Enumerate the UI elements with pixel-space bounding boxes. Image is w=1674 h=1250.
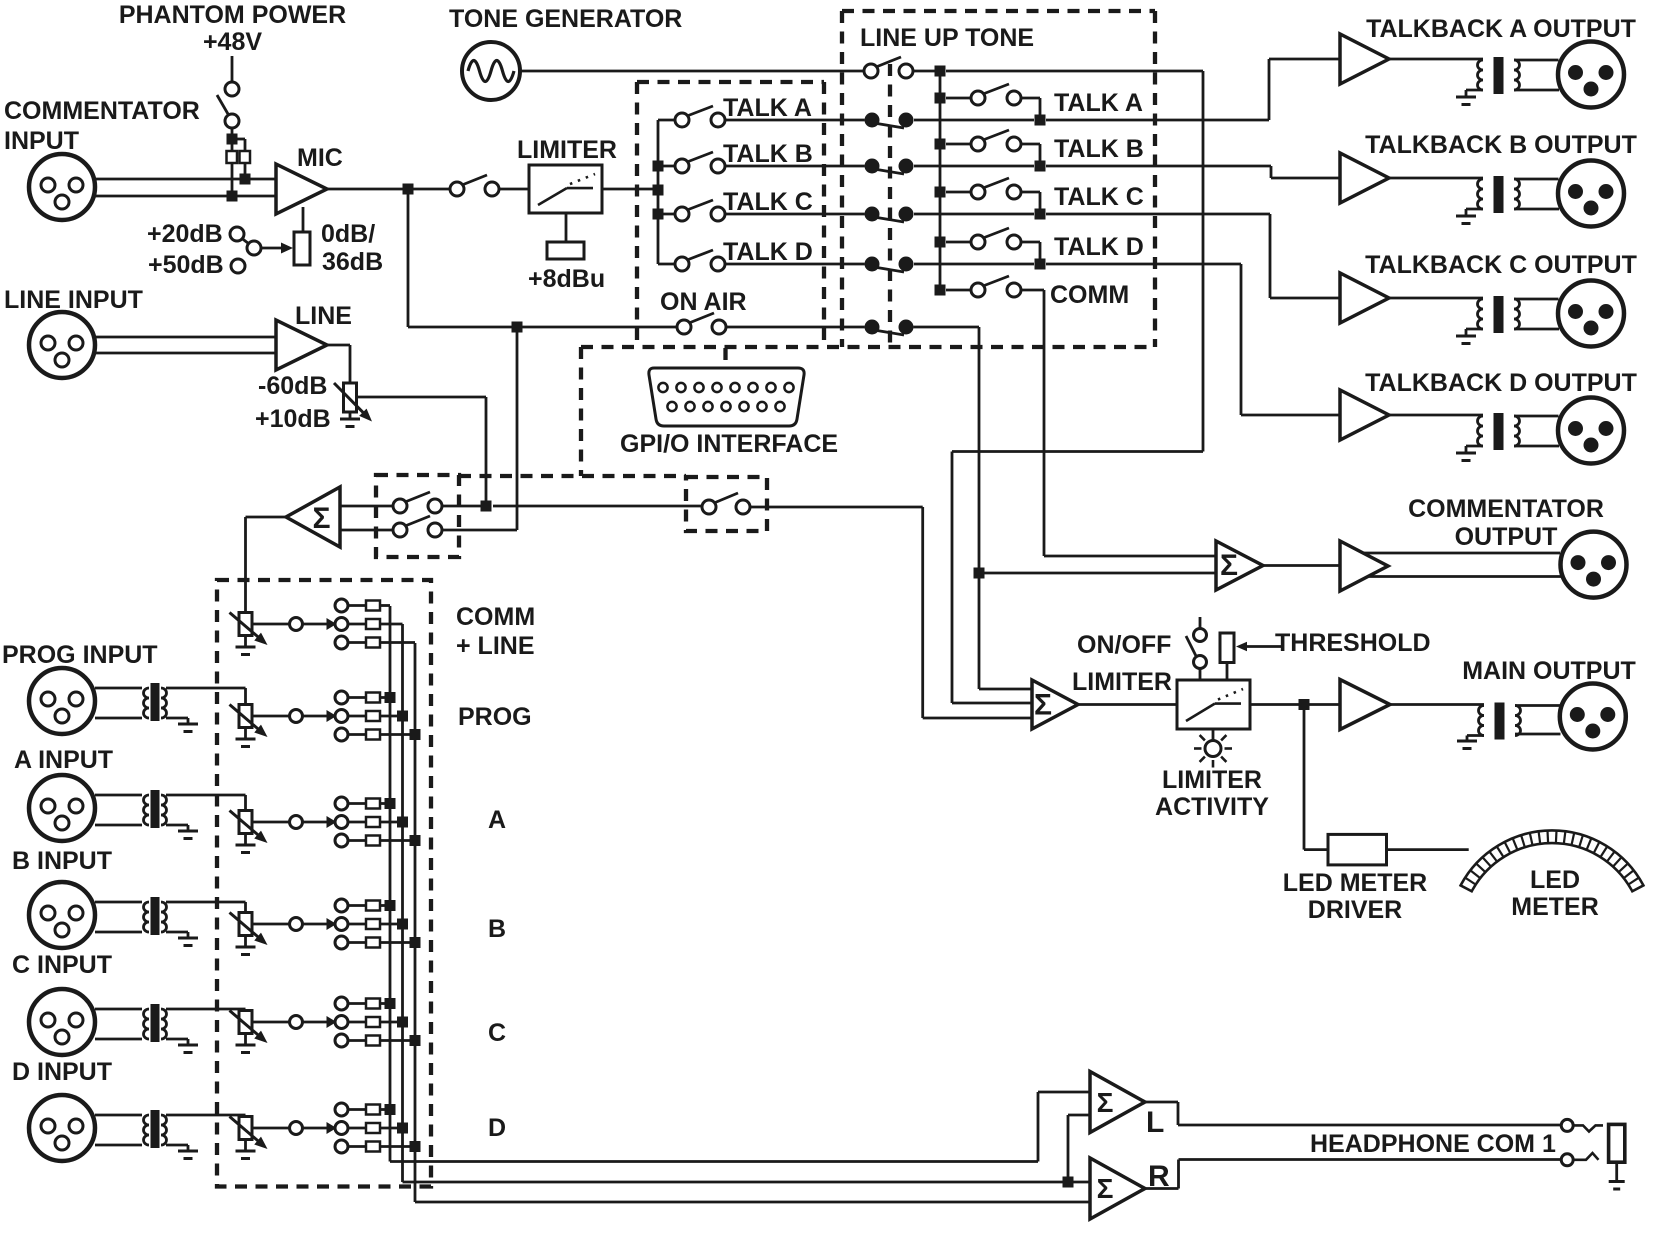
node tone bus B: [935, 139, 946, 150]
svg-text:INPUT: INPUT: [4, 127, 79, 155]
switch tone to TALK D: [971, 235, 985, 249]
svg-text:TALKBACK B OUTPUT: TALKBACK B OUTPUT: [1365, 131, 1637, 159]
op-amp sum headphone L: [1090, 1072, 1145, 1133]
switch sum upper: [393, 499, 407, 513]
svg-text:PROG: PROG: [458, 703, 532, 731]
connector XLR talkback B output: [1558, 161, 1624, 227]
switch tone inject master: [864, 64, 878, 78]
potentiometer matrix B: [239, 913, 252, 936]
dashed box gpio switch: [686, 477, 767, 531]
svg-text:TALK A: TALK A: [723, 94, 812, 122]
wire bus comm+line: [389, 606, 392, 1162]
contact C 3: [335, 1034, 348, 1047]
node PROG 1: [385, 692, 396, 703]
wire D secondary low to ground: [166, 1144, 188, 1147]
wire pot to buffer COMM + LINE: [252, 623, 290, 626]
svg-text:TALK B: TALK B: [1054, 135, 1144, 163]
svg-text:OUTPUT: OUTPUT: [1455, 523, 1558, 551]
wire R2 to mic high line: [244, 163, 247, 179]
buffer A: [290, 816, 303, 829]
wire D secondary high: [166, 1114, 246, 1117]
switch changeover talk B: [865, 159, 880, 174]
node A 3: [410, 835, 421, 846]
wire line pair high: [95, 336, 276, 339]
contact COMM + LINE 1: [335, 599, 348, 612]
op-amp sum headphone R: [1090, 1158, 1145, 1219]
node on-air to commentator sum: [974, 568, 985, 579]
potentiometer threshold: [1220, 633, 1234, 663]
switch TALK B: [675, 159, 689, 173]
svg-text:TALKBACK D OUTPUT: TALKBACK D OUTPUT: [1365, 369, 1637, 397]
switch changeover talk A: [865, 113, 880, 128]
ground B input: [178, 937, 198, 940]
wire B input pair: [95, 901, 142, 904]
svg-text:+48V: +48V: [203, 28, 262, 56]
ground talkback C: [1466, 328, 1483, 331]
transformer talkback B output: [1478, 179, 1483, 209]
wire tone line right: [946, 70, 1203, 73]
switch limiter on/off: [1199, 617, 1202, 628]
ground talkback B: [1466, 208, 1483, 211]
svg-text:GPI/O INTERFACE: GPI/O INTERFACE: [620, 430, 838, 458]
dashed box talk switches: [637, 80, 824, 84]
svg-text:ACTIVITY: ACTIVITY: [1155, 793, 1269, 821]
svg-text:C: C: [488, 1019, 506, 1047]
wire mic tap to switch: [442, 529, 517, 532]
svg-text:TALKBACK C OUTPUT: TALKBACK C OUTPUT: [1365, 251, 1637, 279]
wire talk B to amp: [914, 165, 1034, 168]
wire tone generator output: [520, 70, 864, 73]
svg-text:HEADPHONE COM 1: HEADPHONE COM 1: [1310, 1130, 1556, 1158]
svg-text:A: A: [488, 806, 506, 834]
connector XLR PROG input: [29, 668, 95, 734]
svg-text:Σ: Σ: [1097, 1173, 1114, 1204]
wire A secondary high: [166, 794, 246, 797]
wire talkback C out: [1389, 297, 1483, 300]
op-amp talkback B: [1340, 153, 1389, 203]
connector XLR commentator input: [29, 154, 95, 220]
wire main secondary: [1515, 704, 1560, 707]
ground matrix A pot: [244, 834, 247, 845]
wire buffer arrow C: [303, 1021, 328, 1024]
node talk bus B: [653, 161, 664, 172]
wire B secondary low to ground: [166, 931, 188, 934]
wire tone switch C jog: [1021, 191, 1040, 194]
wire line pair low: [95, 352, 276, 355]
node on-air tap: [512, 322, 523, 333]
wire tone switch B jog: [1021, 143, 1040, 146]
op-amp talkback D: [1340, 390, 1389, 440]
connector XLR talkback D output: [1558, 398, 1624, 464]
ground line pot: [349, 412, 352, 419]
wire +48V feed: [231, 56, 234, 82]
wire tone to node: [913, 70, 940, 73]
svg-text:LIMITER: LIMITER: [1072, 668, 1172, 696]
contact COMM + LINE 2: [335, 618, 348, 631]
wire commentator balanced high: [1363, 552, 1560, 555]
node talk B row join: [1035, 161, 1046, 172]
connector XLR B input: [29, 882, 95, 948]
wire buffer arrow COMM + LINE: [303, 623, 328, 626]
svg-text:LIMITER: LIMITER: [517, 136, 617, 164]
svg-text:Σ: Σ: [312, 502, 330, 535]
switch changeover talk C: [865, 207, 880, 222]
node talk bus limiter feed: [653, 185, 664, 196]
dashed stub gpio connector: [723, 348, 727, 368]
wire sum lower input: [340, 529, 393, 532]
jack headphone body: [1609, 1124, 1625, 1162]
wire pot to buffer PROG: [252, 715, 290, 718]
dashed bottom gpio/talk/tone boxes: [581, 345, 1155, 349]
contact A 2: [335, 816, 348, 829]
op-amp sum main: [1032, 680, 1078, 729]
svg-text:LINE INPUT: LINE INPUT: [4, 286, 143, 314]
op-amp sum commentator: [1216, 541, 1263, 590]
svg-text:DRIVER: DRIVER: [1308, 896, 1402, 924]
svg-text:Σ: Σ: [1097, 1087, 1114, 1118]
wire PROG input pair: [95, 687, 142, 690]
potentiometer matrix COMM + LINE: [239, 613, 252, 636]
wire on-air feed down: [914, 326, 980, 329]
transformer talkback A output: [1478, 60, 1483, 90]
op-amp LINE preamp: [276, 320, 327, 370]
op-amp main output: [1340, 680, 1390, 730]
dashed gpio bottom: [459, 474, 686, 478]
meter LED arc: [1461, 830, 1644, 891]
wire tone to main sum: [952, 702, 1032, 705]
wire talk A row: [725, 119, 865, 122]
wire bus third: [414, 643, 417, 1202]
switch changeover talk D: [865, 257, 880, 272]
wire commentator balanced low: [1368, 575, 1561, 578]
connector XLR line input: [29, 312, 95, 378]
wire pot to buffer B: [252, 923, 290, 926]
node B 2: [397, 919, 408, 930]
connector XLR C input: [29, 989, 95, 1055]
dashed box sum switches: [376, 475, 459, 557]
wire commentator pair high: [95, 178, 276, 181]
wire tone switch A jog: [1021, 97, 1040, 100]
wire pot to buffer C: [252, 1021, 290, 1024]
wire pot to buffer D: [252, 1127, 290, 1130]
wire tone switch D jog: [1021, 241, 1040, 244]
node phantom junction: [227, 134, 238, 145]
wire mic direct vertical: [407, 189, 410, 327]
svg-text:TALK C: TALK C: [1054, 183, 1144, 211]
buffer COMM + LINE: [290, 618, 303, 631]
svg-text:D INPUT: D INPUT: [12, 1058, 112, 1086]
wire talk D to amp: [914, 263, 1034, 266]
svg-text:LED: LED: [1530, 866, 1580, 894]
contact D 3: [335, 1140, 348, 1153]
potentiometer matrix C: [239, 1011, 252, 1034]
transformer talkback C output: [1478, 299, 1483, 329]
node R2 on high line: [240, 174, 251, 185]
ground main output: [1467, 734, 1484, 737]
node line tap join: [442, 505, 486, 508]
wire to commentator sum lower: [979, 572, 1216, 575]
svg-text:COMMENTATOR: COMMENTATOR: [1408, 495, 1604, 523]
switch TALK A: [675, 113, 689, 127]
svg-text:+20dB: +20dB: [147, 220, 223, 248]
svg-text:Σ: Σ: [1220, 549, 1238, 582]
node A 2: [397, 817, 408, 828]
wire C secondary low to ground: [166, 1038, 188, 1041]
buffer PROG: [290, 710, 303, 723]
block +8dBu reference: [547, 242, 584, 259]
contact PROG 2: [335, 710, 348, 723]
wire main amp out: [1390, 703, 1484, 706]
node C 1: [385, 998, 396, 1009]
wire sum output: [246, 516, 287, 519]
wire talk D row: [725, 263, 865, 266]
contact COMM + LINE 3: [335, 636, 348, 649]
svg-text:LIMITER: LIMITER: [1162, 766, 1262, 794]
transformer B input: [144, 902, 150, 932]
dashed divider line up tone: [888, 64, 892, 347]
svg-text:A INPUT: A INPUT: [14, 746, 113, 774]
wire driver to meter: [1387, 848, 1469, 851]
contact PROG 1: [335, 691, 348, 704]
node B 3: [410, 937, 421, 948]
wire tone bus vertical: [939, 71, 942, 290]
switch gpio insert: [702, 500, 716, 514]
contact A 1: [335, 797, 348, 810]
ground talkback D: [1466, 445, 1483, 448]
wire talk bus vertical: [657, 120, 660, 264]
wire mic output: [327, 188, 408, 191]
wire talk C to amp: [914, 213, 1034, 216]
ground C input: [178, 1044, 198, 1047]
wire A secondary low to ground: [166, 824, 188, 827]
svg-text:COMM: COMM: [456, 603, 535, 631]
wire pot to buffer A: [252, 821, 290, 824]
node D 2: [397, 1123, 408, 1134]
wire talk A stub: [658, 119, 675, 122]
ground headphone jack: [1615, 1162, 1618, 1181]
wire comm+line switched: [493, 505, 702, 508]
resistor R2 phantom: [240, 151, 251, 163]
lamp limiter activity: [1212, 729, 1215, 740]
svg-text:TALK A: TALK A: [1054, 89, 1143, 117]
dashed box line up tone: [842, 9, 1155, 13]
switch tone to COMM: [971, 283, 985, 297]
svg-text:0dB/: 0dB/: [321, 220, 375, 248]
wire talk C row: [725, 213, 865, 216]
contact B 1: [335, 899, 348, 912]
svg-text:LINE: LINE: [295, 302, 352, 330]
svg-text:B INPUT: B INPUT: [12, 847, 112, 875]
ground matrix B pot: [244, 936, 247, 947]
wire bus prog: [401, 624, 404, 1182]
ground matrix D pot: [244, 1140, 247, 1151]
block LED meter driver: [1328, 834, 1387, 865]
svg-text:TONE GENERATOR: TONE GENERATOR: [449, 5, 682, 33]
wire to main sum lower: [923, 717, 1032, 720]
ground matrix C pot: [244, 1034, 247, 1045]
wire comm stub: [946, 289, 971, 292]
resistor R1 phantom: [227, 151, 238, 163]
buffer B: [290, 918, 303, 931]
wire R out: [1145, 1187, 1179, 1190]
connector DB15 GPI/O: [649, 368, 804, 426]
potentiometer mic gain 0dB/36dB: [294, 232, 310, 265]
wire on-air row left: [408, 326, 677, 329]
block limiter 1: [529, 165, 602, 213]
wire talkback A secondary: [1514, 59, 1559, 62]
connector XLR main output: [1560, 684, 1626, 750]
wire switch to limiter: [499, 188, 529, 191]
connector XLR talkback A output: [1558, 42, 1624, 108]
wire L out: [1145, 1101, 1178, 1104]
dashed box gpio left: [579, 347, 583, 476]
node main meter tap: [1299, 699, 1310, 710]
contact A 3: [335, 834, 348, 847]
wire talk B row: [725, 165, 865, 168]
wire talk C stub: [658, 213, 675, 216]
ground matrix COMM + LINE pot: [244, 636, 247, 647]
switch tone to TALK C: [971, 185, 985, 199]
potentiometer matrix D: [239, 1117, 252, 1140]
connector XLR A input: [29, 775, 95, 841]
oscillator tone generator: [462, 42, 520, 100]
svg-text:ON/OFF: ON/OFF: [1077, 631, 1171, 659]
svg-text:+ LINE: + LINE: [456, 632, 535, 660]
wire line amp out: [327, 344, 350, 347]
svg-text:+50dB: +50dB: [148, 251, 224, 279]
svg-text:PROG INPUT: PROG INPUT: [2, 641, 158, 669]
ground talkback A: [1466, 89, 1483, 92]
contact B 2: [335, 918, 348, 931]
svg-text:Σ: Σ: [1034, 689, 1052, 722]
svg-text:+10dB: +10dB: [255, 405, 331, 433]
wire talkback B out: [1389, 177, 1483, 180]
node D 1: [385, 1104, 396, 1115]
node talk bus C: [653, 209, 664, 220]
node B 1: [385, 900, 396, 911]
svg-text:COMM: COMM: [1050, 281, 1129, 309]
wire C input pair: [95, 1008, 142, 1011]
node R1 on low line: [227, 191, 238, 202]
wire limiter2 out: [1250, 703, 1340, 706]
potentiometer matrix A: [239, 811, 252, 834]
contact PROG 3: [335, 728, 348, 741]
switch sum lower: [393, 523, 407, 537]
svg-text:-60dB: -60dB: [258, 372, 327, 400]
contact C 1: [335, 997, 348, 1010]
contact D 1: [335, 1103, 348, 1116]
svg-text:METER: METER: [1511, 893, 1599, 921]
ground matrix PROG pot: [244, 728, 247, 739]
node tone bus C: [935, 187, 946, 198]
wire talkback D secondary: [1514, 415, 1559, 418]
wire main sum out: [1078, 703, 1177, 706]
jack headphone contacts: [1561, 1119, 1573, 1131]
wire limiter ref: [565, 213, 568, 242]
wire meter tap down: [1303, 705, 1306, 850]
wire R1 to mic low line: [231, 163, 234, 196]
node tone bus top: [935, 66, 946, 77]
wire on-air to main sum: [979, 688, 1032, 691]
wire talkback B secondary: [1514, 178, 1559, 181]
switch S1 phantom power: [225, 82, 239, 96]
wire talk A to amp: [914, 119, 1034, 122]
wire commentator sum out: [1263, 564, 1340, 567]
svg-text:COMMENTATOR: COMMENTATOR: [4, 97, 200, 125]
ground PROG input: [178, 723, 198, 726]
svg-text:D: D: [488, 1114, 506, 1142]
op-amp talkback A: [1340, 34, 1389, 84]
op-amp talkback C: [1340, 273, 1389, 323]
node D 3: [410, 1141, 421, 1152]
wire buffer arrow B: [303, 923, 328, 926]
dashed box matrix: [217, 580, 431, 1187]
op-amp commentator output: [1340, 541, 1388, 591]
transformer D input: [144, 1115, 150, 1145]
contact D 2: [335, 1122, 348, 1135]
transformer PROG input: [144, 688, 150, 718]
svg-text:LINE UP TONE: LINE UP TONE: [860, 24, 1034, 52]
node comm bus: [935, 285, 946, 296]
svg-text:LED METER: LED METER: [1283, 869, 1427, 897]
wire talkback D out: [1389, 414, 1483, 417]
wire sum upper input: [340, 505, 393, 508]
node talk D row join: [1035, 259, 1046, 270]
wire mic gain stub: [302, 207, 305, 232]
node talk A row join: [1035, 115, 1046, 126]
wire talkback A out: [1389, 58, 1483, 61]
node C 2: [397, 1017, 408, 1028]
switch TALK C: [675, 207, 689, 221]
wire B secondary high: [166, 901, 246, 904]
switch tone to TALK B: [971, 137, 985, 151]
svg-text:B: B: [488, 915, 506, 943]
svg-text:ON AIR: ON AIR: [660, 288, 747, 316]
svg-text:TALK D: TALK D: [723, 238, 813, 266]
buffer D: [290, 1122, 303, 1135]
arrow threshold: [1245, 645, 1284, 648]
wire tone stub B: [946, 143, 971, 146]
wire limiter out to talk bus: [602, 188, 658, 191]
svg-text:C INPUT: C INPUT: [12, 951, 112, 979]
wire tone stub D: [946, 241, 971, 244]
buffer C: [290, 1016, 303, 1029]
contact B 3: [335, 936, 348, 949]
wire talk D stub: [658, 263, 675, 266]
wire gain arrow: [261, 247, 284, 250]
wire PROG secondary high: [166, 687, 246, 690]
op-amp sum comm+line: [286, 487, 340, 547]
transformer main output: [1479, 706, 1485, 736]
block limiter 2: [1177, 680, 1250, 729]
wire buffer arrow D: [303, 1127, 328, 1130]
wire buffer arrow A: [303, 821, 328, 824]
wire talk B stub: [658, 165, 675, 168]
contact C 2: [335, 1016, 348, 1029]
svg-text:+8dBu: +8dBu: [528, 265, 605, 293]
svg-text:TALK C: TALK C: [723, 188, 813, 216]
ground D input: [178, 1150, 198, 1153]
svg-text:TALKBACK A OUTPUT: TALKBACK A OUTPUT: [1366, 15, 1636, 43]
node talk C row join: [1035, 209, 1046, 220]
node prog to L sum: [1063, 1177, 1074, 1188]
transformer A input: [144, 795, 150, 825]
svg-text:MAIN OUTPUT: MAIN OUTPUT: [1462, 657, 1636, 685]
svg-text:MIC: MIC: [297, 144, 343, 172]
connector XLR D input: [29, 1095, 95, 1161]
connector XLR talkback C output: [1558, 281, 1624, 347]
wire node jog: [232, 138, 245, 141]
